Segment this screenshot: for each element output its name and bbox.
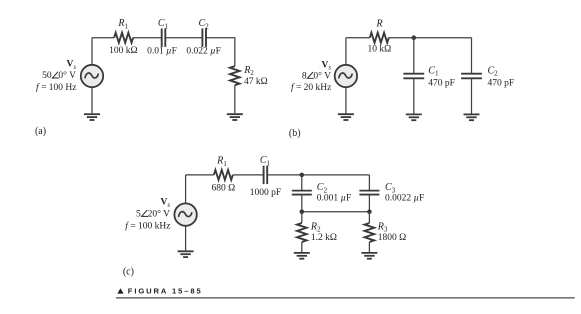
- capacitor C1 (a): [162, 29, 166, 47]
- voltage source Vs (b): [335, 65, 357, 87]
- capacitor C3 (c): [359, 191, 379, 195]
- wire c: corner down to C3: [368, 175, 370, 191]
- wire b: R to right corner: [389, 37, 472, 39]
- wire c: node down to C2: [301, 175, 303, 191]
- junction node (b): [412, 35, 417, 40]
- wire c: R2 to ground: [301, 242, 303, 252]
- capacitor C2 (a): [202, 29, 206, 47]
- wire c: left vertical to source: [185, 175, 187, 204]
- ground b left: [338, 114, 354, 120]
- svg-text:0.001 µF: 0.001 µF: [317, 194, 352, 204]
- svg-text:20° V: 20° V: [148, 208, 171, 219]
- wire b: C1 to ground: [413, 78, 415, 113]
- svg-text:8: 8: [302, 71, 307, 81]
- ground a right: [227, 114, 243, 120]
- svg-text:FIGURA 15–85: FIGURA 15–85: [128, 287, 203, 296]
- wire c: C1 to right corner: [267, 174, 369, 176]
- ground b C2: [464, 114, 480, 120]
- capacitor C1 (c): [264, 166, 268, 184]
- svg-text:1.2 kΩ: 1.2 kΩ: [311, 233, 337, 243]
- junction node c top: [300, 173, 305, 178]
- resistor R2 (a): [230, 66, 240, 85]
- wire c: mid rail: [302, 211, 370, 213]
- svg-text:(b): (b): [289, 128, 301, 139]
- svg-text:f = 100 kHz: f = 100 kHz: [125, 221, 170, 232]
- ground c R3: [361, 253, 377, 259]
- resistor R2 (c): [297, 223, 307, 242]
- svg-text:5: 5: [136, 209, 141, 219]
- resistor R3 (c): [365, 223, 375, 242]
- svg-text:R: R: [375, 18, 382, 29]
- caption triangle marker: [117, 288, 123, 293]
- wire a: R1 to C1: [133, 37, 162, 39]
- wire a: C1 to C2: [165, 37, 202, 39]
- wire a: left vertical to source: [91, 38, 93, 65]
- wire c: source top to R1: [186, 174, 214, 176]
- ground c left: [178, 251, 194, 257]
- wire a: source to ground: [91, 87, 93, 113]
- junction node c mid-right: [367, 209, 372, 214]
- svg-text:0° V: 0° V: [58, 70, 76, 81]
- wire c: C3 to mid rail: [368, 195, 370, 212]
- capacitor C2 (c): [292, 191, 312, 195]
- capacitor C2 (b): [461, 74, 482, 79]
- wire c: R1 to C1: [233, 174, 264, 176]
- svg-text:10 kΩ: 10 kΩ: [368, 45, 392, 55]
- wire a: source top to R1: [92, 37, 114, 39]
- wire c: R3 to ground: [368, 242, 370, 252]
- svg-text:47 kΩ: 47 kΩ: [244, 77, 268, 87]
- resistor R1 (a): [114, 33, 133, 43]
- svg-text:f = 20 kHz: f = 20 kHz: [291, 82, 331, 93]
- svg-text:470 pF: 470 pF: [488, 78, 515, 88]
- wire a: C2 to corner: [206, 37, 235, 39]
- ground a left: [84, 114, 100, 120]
- svg-text:470 pF: 470 pF: [428, 78, 455, 88]
- wire c: mid to R2: [301, 212, 303, 223]
- svg-text:680 Ω: 680 Ω: [211, 183, 235, 193]
- caption rule: [116, 297, 575, 298]
- resistor R1 (c): [214, 170, 233, 180]
- wire b: left vertical to source: [345, 38, 347, 65]
- svg-text:1000 pF: 1000 pF: [250, 188, 281, 198]
- wire b: corner down to C2: [471, 38, 473, 74]
- wire b: source top to R: [346, 37, 370, 39]
- wire a: R2 to ground: [234, 85, 236, 113]
- svg-text:f = 100 Hz: f = 100 Hz: [36, 82, 76, 93]
- resistor R (b): [370, 33, 389, 43]
- ground b C1: [406, 114, 422, 120]
- capacitor C1 (b): [403, 74, 424, 79]
- ground c R2: [294, 253, 310, 259]
- junction node c mid-left: [300, 209, 305, 214]
- svg-text:50: 50: [42, 71, 52, 81]
- svg-text:1800 Ω: 1800 Ω: [378, 233, 406, 243]
- wire a: corner down to R2: [234, 38, 236, 66]
- svg-text:0.022 µF: 0.022 µF: [186, 47, 221, 57]
- wire c: C2 to mid rail: [301, 195, 303, 212]
- wire b: node down to C1: [413, 38, 415, 74]
- svg-text:100 kΩ: 100 kΩ: [109, 46, 137, 56]
- wire b: C2 to ground: [471, 78, 473, 113]
- svg-text:(a): (a): [35, 126, 46, 137]
- svg-text:0° V: 0° V: [313, 70, 331, 81]
- wire c: mid to R3: [368, 212, 370, 223]
- wire b: source to ground: [345, 87, 347, 113]
- svg-text:0.0022 µF: 0.0022 µF: [385, 194, 424, 204]
- svg-text:0.01 µF: 0.01 µF: [147, 47, 177, 57]
- svg-text:(c): (c): [123, 266, 134, 277]
- voltage source Vs (c): [174, 203, 196, 225]
- wire c: source to ground: [185, 226, 187, 251]
- voltage source Vs (a): [81, 65, 103, 87]
